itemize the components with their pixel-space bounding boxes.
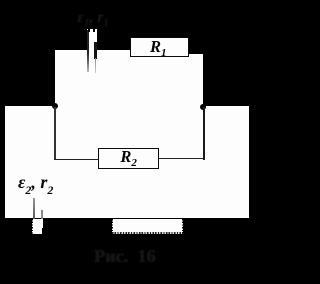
wire: lower-loop interior (big white area of outer loop) (5, 106, 249, 218)
wire: black fill over top-right wire segment from R1 to corner (189, 50, 203, 55)
battery E2 long plate (left) (33, 198, 35, 219)
wire: horizontal from R2 right terminal to right wire (159, 158, 205, 160)
resistor R2 (box on middle branch) (98, 148, 159, 169)
node A (left junction dot) (52, 103, 58, 109)
caption: Рис. 16 (faint dark-gray on black) (94, 246, 169, 266)
label ε1, r1 (faint dark-gray on black) (78, 9, 122, 29)
resistor R2 value label (120, 147, 137, 169)
resistor R serrated bottom border (112, 232, 183, 234)
wire: top-loop interior (white area bounded by top branch wires) (55, 50, 203, 107)
node B (right junction dot) (200, 104, 206, 110)
resistor R1 (box on top branch) (130, 37, 189, 57)
battery E1 white gap in black background (87, 29, 97, 51)
battery E1 short plate (right) (94, 42, 97, 59)
battery E2 gap right step notch (42, 228, 44, 235)
battery E2 short plate (right) (41, 210, 42, 219)
battery E2 white gap in bottom wire (black band) (32, 219, 43, 234)
battery E1 long plate (left) (87, 30, 89, 72)
resistor R1 value label (150, 37, 167, 59)
wire: horizontal from left wire to R2 left terminal (54, 159, 98, 161)
battery E1 plate tops poking into black (88, 29, 90, 32)
wire: from node B down to R2 branch (203, 107, 205, 160)
label ε2, r2 (black on white) (18, 172, 68, 196)
resistor R serrated right edge (182, 219, 183, 233)
wire: from node A down to R2 branch (54, 107, 56, 160)
resistor R serrated left edge (112, 219, 113, 233)
resistor R (hatched box bump below bottom wire) (112, 219, 183, 233)
battery E2 gap serrated left edge (32, 219, 33, 233)
